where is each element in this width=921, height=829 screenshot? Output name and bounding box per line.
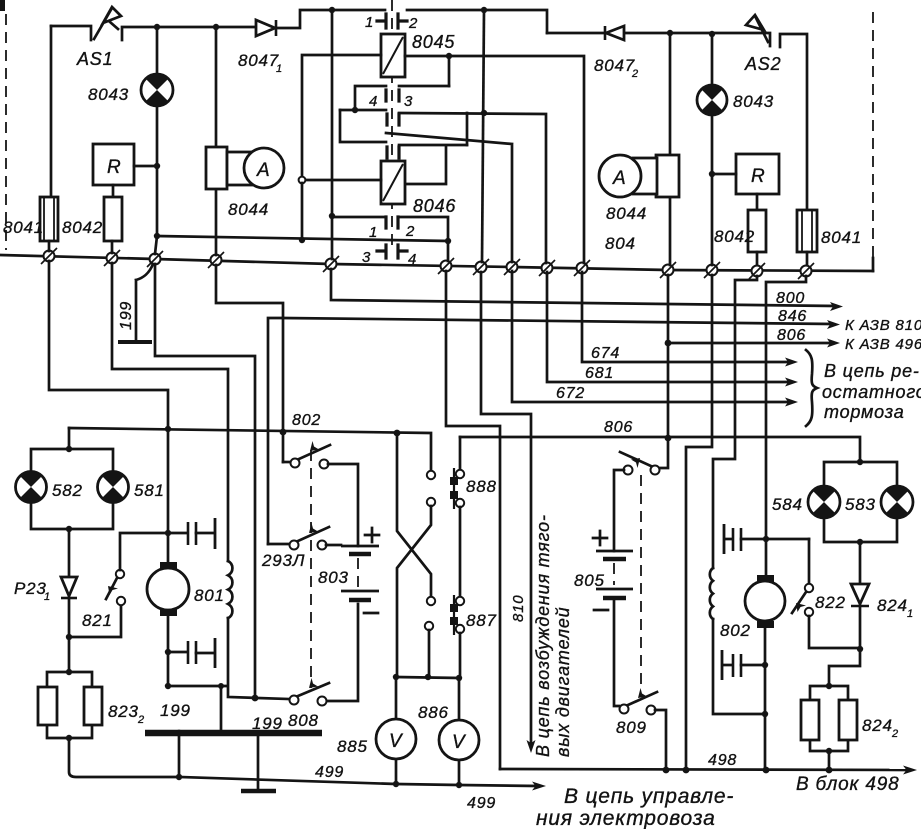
arrowhead 681 <box>785 378 798 387</box>
contact 8046 1-2 bars <box>386 217 398 228</box>
wire: lamp 8043R branch <box>711 34 714 85</box>
svg-text:808: 808 <box>288 711 319 730</box>
lamp pair 584/583 loop bottom <box>824 518 897 542</box>
contact 8046 3-4 bridge bars <box>377 245 407 258</box>
wire: 8042R to terminal T13 <box>756 252 759 265</box>
ammeter body 8044 right <box>599 155 679 197</box>
mechanical dashed link 293L/808 <box>310 450 312 688</box>
wire: 846 net east with arrow <box>283 318 832 324</box>
wire: motor 802 bottom lead <box>764 628 767 770</box>
terminal T8 <box>504 259 520 275</box>
wire: top-left feeder from AS1 corner down to fuse 8041 <box>50 26 53 197</box>
label minus 803 <box>364 612 378 615</box>
wire: 8041R to terminal T14 <box>806 252 809 265</box>
wire: lamp 8043L branch <box>156 27 159 74</box>
svg-text:821: 821 <box>82 611 113 630</box>
junction lamp loop bottom right <box>857 539 863 545</box>
wire: long 499 line with arrow <box>179 777 536 786</box>
capacitor 801 bottom <box>168 638 215 668</box>
junction 498-line x666 <box>663 767 670 774</box>
junction voltmeter bus left <box>393 674 399 680</box>
wire: long 240-line from lamp column to x448 <box>157 236 448 241</box>
wire: 823-2 resistor group feed <box>68 637 71 672</box>
wire: 821 bottom lead <box>69 605 121 637</box>
svg-text:1: 1 <box>276 63 283 75</box>
wire: T1 zigzag to motor 801 column <box>49 261 168 429</box>
svg-text:1: 1 <box>907 608 914 620</box>
junction 808 feeder <box>252 695 259 702</box>
signal lamp 8043 (right) <box>697 85 727 115</box>
ammeter body 8044 left <box>227 148 284 188</box>
relay box R (right) <box>736 154 779 194</box>
wire: row-B lower line to terminal T8 feeder (672 net) <box>386 133 512 262</box>
svg-text:886: 886 <box>418 703 449 722</box>
terminal T7 <box>473 259 489 275</box>
voltmeter 885 <box>376 719 416 759</box>
arrowhead 496 net <box>827 339 840 348</box>
svg-text:8042: 8042 <box>62 218 103 237</box>
breaker AS2 flag symbol <box>746 15 768 42</box>
switch 822 <box>792 584 813 616</box>
contact row B bars <box>387 114 399 125</box>
wire: 808 to battery 803 riser <box>327 604 358 701</box>
wire: 8045 coil right lead to x584 <box>405 56 584 263</box>
junction top bus x484 <box>481 7 487 13</box>
fuse/resistor 8041 (left) <box>40 197 58 241</box>
wire: 887 to bus <box>459 633 462 678</box>
wire: diode 8047-2 to AS2 <box>625 33 770 46</box>
crossover switch lower right contact <box>427 498 435 506</box>
svg-text:2: 2 <box>408 15 418 32</box>
terminal row bus line <box>0 255 873 271</box>
terminal T13 <box>749 263 765 279</box>
junction 824-2 top <box>826 683 832 689</box>
wire: 8046 coil left lead <box>306 179 381 182</box>
svg-text:3: 3 <box>362 249 371 266</box>
junction motor bottom corner <box>165 683 171 689</box>
wire: K A3B 496 net from x668 junction <box>668 342 832 345</box>
wire: x448 to terminal T6 <box>447 241 450 261</box>
svg-text:846: 846 <box>778 308 807 325</box>
junction node on top wire at ammeter branch <box>213 24 219 30</box>
relay box R (left) <box>93 144 134 185</box>
junction 499-line voltmeter 885 <box>393 781 399 787</box>
wire: x331 column from top bus to terminal T5 <box>331 10 334 259</box>
junction right lamp feed <box>857 459 863 465</box>
svg-text:498: 498 <box>708 752 737 769</box>
svg-text:681: 681 <box>585 365 614 382</box>
mechanical dashed link through relays 8045/8046 <box>391 0 393 246</box>
svg-text:К АЗВ 496: К АЗВ 496 <box>845 336 921 353</box>
wire: top bus drop to diode 8047-2 <box>547 32 604 35</box>
ammeter shunt box 8044 left <box>206 147 227 189</box>
svg-text:2: 2 <box>405 223 415 240</box>
earth bar bottom <box>241 789 276 794</box>
svg-text:806: 806 <box>777 327 806 344</box>
svg-text:888: 888 <box>466 477 497 496</box>
crossover switch X diagonals <box>397 433 431 677</box>
junction x668 on 496 net <box>665 340 672 347</box>
svg-text:8046: 8046 <box>413 196 456 216</box>
junction 823-2 bottom <box>66 735 72 741</box>
wire: crossover to voltmeter bus <box>428 630 431 677</box>
contact row B right arm east to terminal T9 feeder <box>399 113 546 263</box>
junction 821 bottom wire <box>66 634 72 640</box>
switch 293L lower pole <box>268 523 341 550</box>
wire: inductor bottom to motor bottom bus <box>168 618 289 699</box>
svg-text:AS2: AS2 <box>744 54 781 74</box>
svg-text:8047: 8047 <box>238 51 279 70</box>
inductor 801 <box>228 561 232 618</box>
relay coil 8045 <box>381 34 405 77</box>
ground busbar <box>145 730 322 737</box>
svg-text:822: 822 <box>815 593 846 612</box>
switch on 806 line (to battery 805) <box>614 438 668 551</box>
junction where x484 crosses row-B line <box>481 110 487 116</box>
arrowhead 498 line <box>903 766 917 775</box>
arrowhead 672 <box>785 398 798 407</box>
mechanical dashed link 805 switches <box>640 475 642 690</box>
arrowhead 800 <box>830 302 843 311</box>
wire: x302 down to 240-line <box>301 183 304 240</box>
svg-text:2: 2 <box>891 728 899 740</box>
wire: T3 zigzag to switch 808 column <box>155 264 255 697</box>
contact 8045 1-2 bridge bars <box>377 14 407 28</box>
junction voltmeter bus mid <box>425 674 431 680</box>
wire: T4 zigzag to 293L upper column <box>216 265 283 462</box>
wire: T7 to 810 arrow line <box>481 272 531 743</box>
svg-text:ния электровоза: ния электровоза <box>536 807 716 829</box>
svg-text:2: 2 <box>631 68 639 80</box>
lamp pair loop top <box>31 449 113 471</box>
signal lamp 584 <box>808 486 840 518</box>
junction 822/824-1 <box>857 646 863 652</box>
motor 802 <box>745 575 785 628</box>
label plus 805 <box>593 531 607 545</box>
wire: battery 805 to switch 809 <box>614 598 619 706</box>
battery 803 <box>341 546 379 600</box>
svg-text:V: V <box>389 731 404 752</box>
earth bar 199 <box>118 340 152 344</box>
wire: right frame to terminal row <box>872 258 875 271</box>
wire: R box down to resistor 8042 <box>112 185 115 197</box>
wire: T13 jog to x735 and inductor 802 <box>713 276 757 568</box>
switch 293L upper pole <box>283 441 358 546</box>
switch 808 <box>290 678 330 706</box>
svg-text:582: 582 <box>52 481 83 500</box>
wire: x484 column from top bus to terminal T7 <box>482 10 484 262</box>
svg-text:824: 824 <box>862 716 893 735</box>
arrowhead 810 down <box>527 740 536 753</box>
junction at x712 <box>709 31 715 37</box>
wire: T12 column jog to x686 and bottom line <box>686 275 712 769</box>
junction x331 contact arm <box>329 213 335 219</box>
arrowhead 846 <box>827 320 840 329</box>
wire: contact-3 riser <box>448 56 451 86</box>
wire: diode to 821 node <box>68 598 71 637</box>
junction 498-line motor column <box>763 767 770 774</box>
lamp pair loop bottom <box>31 503 113 529</box>
junction bottom capacitor tap 802 <box>762 662 768 668</box>
wire: diode to step up into top bus <box>276 10 385 28</box>
svg-text:199: 199 <box>118 301 135 330</box>
wire: R box to lamp line <box>134 165 157 168</box>
svg-text:809: 809 <box>616 718 647 737</box>
wire: 8041 to terminal T1 <box>48 241 51 251</box>
svg-text:AS1: AS1 <box>76 49 113 69</box>
wire: 824-2 to 498 line <box>828 751 831 770</box>
svg-text:581: 581 <box>134 481 165 500</box>
bottom wire 498 with arrow <box>500 769 909 770</box>
svg-text:806: 806 <box>604 419 633 436</box>
contact row C left riser and arm <box>340 110 386 142</box>
wire: 888/887 column top <box>459 437 462 470</box>
svg-text:800: 800 <box>776 290 805 307</box>
junction motor column at capacitor net <box>763 536 769 542</box>
contact row C bars <box>387 147 399 158</box>
svg-text:8041: 8041 <box>3 218 44 237</box>
terminal T1 <box>41 248 57 264</box>
svg-text:В цепь управле-: В цепь управле- <box>564 785 734 808</box>
junction inductor/busbar drop <box>218 683 224 689</box>
contact row A right arm <box>399 85 449 88</box>
wire: top wire AS1 left segment <box>51 26 91 40</box>
contact row C right arm to 8046 coil right <box>399 145 467 184</box>
svg-text:499: 499 <box>315 764 344 781</box>
wire: T11 column down to 806 line <box>667 275 670 438</box>
arrowhead 499 <box>532 782 546 791</box>
svg-text:A: A <box>612 168 626 189</box>
junction 498-line 824-2 column <box>826 767 833 774</box>
wire: voltmeter 886 leads <box>458 678 461 785</box>
wire: 822 bottom to 824-1 output <box>809 616 860 648</box>
resistor group 824-2 <box>801 686 857 751</box>
svg-text:293Л: 293Л <box>261 551 305 570</box>
node circle: coil junction x302 <box>299 177 306 184</box>
svg-text:В цепь возбуждения тяго-: В цепь возбуждения тяго- <box>533 514 553 757</box>
right frame dashed border <box>872 12 874 258</box>
brace for rheostatic brake nets <box>806 350 817 426</box>
wire: T2 zigzag to inductor column <box>112 263 228 561</box>
wire: drop to busbar <box>220 686 223 730</box>
lamp pair 584/583 loop top <box>824 462 897 486</box>
svg-text:4: 4 <box>369 93 378 110</box>
svg-text:A: A <box>256 160 270 181</box>
wire: 674 net from T10 <box>582 272 790 362</box>
wire: x670 ammeter branch down <box>669 33 672 265</box>
junction node on top wire at lamp branch <box>154 24 160 30</box>
motor 801 <box>147 562 189 616</box>
svg-text:804: 804 <box>605 234 636 253</box>
wire: 8042 to terminal T2 <box>111 241 114 253</box>
svg-text:вых двигателей: вых двигателей <box>553 607 573 757</box>
terminal T14 <box>798 263 814 279</box>
contact 8046 1-2 right arm down to 240-line <box>398 217 448 241</box>
wire: voltmeter 885 leads <box>395 677 398 784</box>
svg-text:4: 4 <box>408 251 417 268</box>
junction busbar x179 <box>176 730 183 737</box>
label plus 803 <box>365 528 379 542</box>
crossover lower contacts <box>427 597 435 605</box>
junction 824-2 bottom <box>826 748 832 754</box>
junction 240-line x301 <box>299 237 305 243</box>
wire: AS2 right tick and corner to x807 <box>780 34 807 210</box>
svg-text:В блок 498: В блок 498 <box>796 774 899 795</box>
terminal T3 <box>147 251 163 267</box>
svg-text:1: 1 <box>44 591 51 603</box>
svg-text:остатного: остатного <box>822 382 921 402</box>
switch 821 <box>106 570 125 605</box>
wire: R right down to resistor 8042R <box>756 194 759 210</box>
junction 806 line x668 <box>665 435 672 442</box>
capacitor 802 bottom <box>722 650 765 680</box>
svg-text:В цепь ре-: В цепь ре- <box>824 361 920 381</box>
signal lamp 581 <box>98 471 129 502</box>
wire: to diode 824-1 <box>859 542 862 584</box>
svg-text:тормоза: тормоза <box>824 402 905 422</box>
wire: T14 jog to motor 802 column <box>766 276 806 578</box>
junction motor/inductor 802 <box>762 711 768 717</box>
junction 823-2 top <box>66 669 72 675</box>
wire: 823-2 down to 499 line <box>69 738 179 777</box>
svg-text:199: 199 <box>160 701 191 720</box>
breaker AS1 flag symbol <box>94 7 121 39</box>
frame corner mark <box>0 0 5 11</box>
wire: top bus right of contact to AS2 drop <box>407 10 547 33</box>
svg-text:8043: 8043 <box>88 85 129 104</box>
wire: 8045 coil left lead <box>302 55 381 177</box>
relay coil 8046 <box>381 161 405 204</box>
junction voltmeter bus right <box>456 675 462 681</box>
svg-text:824: 824 <box>877 596 908 615</box>
inductor 802 <box>710 568 713 619</box>
wire: inductor 802 bottom to motor lead <box>713 619 765 714</box>
wire: branch to 293L lower column <box>268 318 283 544</box>
contact 887 <box>450 595 464 635</box>
wire: 806 line <box>460 437 860 462</box>
terminal T11 <box>660 262 676 278</box>
left frame dash-dot border <box>5 14 7 250</box>
svg-text:810: 810 <box>510 595 527 622</box>
svg-text:672: 672 <box>556 385 585 402</box>
svg-text:8044: 8044 <box>228 200 269 219</box>
junction 802-line x283 <box>280 429 287 436</box>
svg-text:805: 805 <box>574 571 605 590</box>
wire: 800 net from T5 east with arrow <box>331 269 835 306</box>
junction on top bus at x331 <box>329 7 335 13</box>
terminal T12 <box>704 262 720 278</box>
wire: earth drop from busbar <box>257 736 260 790</box>
svg-text:802: 802 <box>292 412 321 429</box>
svg-text:V: V <box>452 732 467 753</box>
wire: 681 net from T9 <box>547 272 790 382</box>
svg-text:8041: 8041 <box>821 228 862 247</box>
resistor 8042 (right) <box>748 210 766 252</box>
label minus 805 <box>594 609 608 612</box>
terminal T4 <box>208 252 224 268</box>
wire: to diode P23-1 <box>68 529 71 577</box>
svg-text:823: 823 <box>108 702 139 721</box>
svg-text:674: 674 <box>591 345 620 362</box>
arrowhead 674 <box>785 358 798 367</box>
signal lamp 582 <box>16 471 47 502</box>
junction at x670 <box>667 30 673 36</box>
svg-text:R: R <box>751 166 766 187</box>
svg-text:584: 584 <box>772 495 803 514</box>
junction 498-line x686 <box>683 767 690 774</box>
wire: T6 to lower-left long vertical x500 <box>446 271 500 769</box>
diode 824-1 <box>851 584 869 606</box>
terminal T10 <box>574 260 590 276</box>
svg-text:499: 499 <box>467 795 496 812</box>
capacitor 801 top <box>188 518 215 549</box>
terminal T2 <box>104 250 120 266</box>
terminal T9 <box>539 260 555 276</box>
diode 8047-1 <box>256 20 276 36</box>
junction 240-line right end <box>445 238 451 244</box>
junction lamp loop top <box>66 446 72 452</box>
svg-text:583: 583 <box>845 495 876 514</box>
svg-text:803: 803 <box>318 568 349 587</box>
signal lamp 8043 (left) <box>141 74 173 106</box>
wire: busbar drop to 499 line <box>178 733 181 777</box>
riser joining row C to row B line <box>466 113 469 145</box>
junction 499-line voltmeter 886 <box>456 782 462 788</box>
junction at bottom capacitor tap <box>165 649 171 655</box>
junction capacitor net at motor column <box>165 530 171 536</box>
junction on coil-right lead <box>446 53 452 59</box>
svg-text:8044: 8044 <box>606 204 647 223</box>
fuse/resistor 8041 (right) <box>797 210 817 252</box>
svg-text:1: 1 <box>365 14 374 31</box>
wire: R right to lamp column <box>712 173 736 176</box>
crossover switch upper right contact <box>427 471 435 479</box>
wire: ammeter 8044L branch down <box>215 27 218 255</box>
terminal T6 <box>438 258 454 274</box>
resistor 8042 (left) <box>104 197 122 241</box>
resistor group 823-2 <box>38 672 102 738</box>
voltmeter 886 <box>439 720 479 760</box>
svg-text:3: 3 <box>404 93 413 110</box>
diode P23-1 <box>61 577 77 598</box>
voltmeter bus wire <box>396 677 459 678</box>
wire: 822 drop from capacitor net <box>808 539 811 584</box>
wire: motor 801 leads <box>167 429 170 686</box>
junction lamp loop bottom <box>66 526 72 532</box>
svg-text:8045: 8045 <box>412 32 455 52</box>
svg-text:8043: 8043 <box>733 92 774 111</box>
wire: 672 net from T8 <box>512 271 790 402</box>
signal lamp 583 <box>881 486 913 518</box>
contact row A bars <box>386 90 399 101</box>
junction at R box tap <box>154 163 160 169</box>
junction 802-line x397 <box>394 430 401 437</box>
contact 888 <box>450 468 464 509</box>
contact row A (8045 4-3): left arm <box>355 86 386 110</box>
svg-text:R: R <box>107 157 122 178</box>
junction row A/B left riser <box>352 107 358 113</box>
wire: lamp 8043R down through R tap to terminal T12 <box>711 115 714 265</box>
svg-text:2: 2 <box>137 714 145 726</box>
junction 499-line x179 <box>176 774 182 780</box>
svg-text:885: 885 <box>337 737 368 756</box>
junction R tap right <box>709 171 715 177</box>
wire: T3 hook to earth 199 <box>136 264 153 341</box>
junction 240-line left end <box>154 233 160 239</box>
svg-text:802: 802 <box>720 621 751 640</box>
terminal T5 <box>323 256 339 272</box>
svg-text:887: 887 <box>466 611 497 630</box>
